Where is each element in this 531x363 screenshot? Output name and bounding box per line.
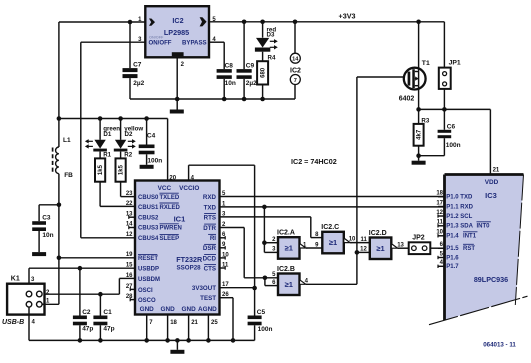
svg-text:IC2.A: IC2.A — [277, 230, 295, 237]
svg-text:GND: GND — [140, 306, 155, 313]
svg-text:GND: GND — [181, 306, 196, 313]
svg-text:CTS: CTS — [204, 265, 216, 272]
svg-text:OSCO: OSCO — [138, 298, 156, 304]
svg-text:FB: FB — [64, 172, 73, 179]
svg-text:47p: 47p — [103, 325, 114, 332]
svg-text:4k7: 4k7 — [417, 129, 423, 140]
svg-text:2µ2: 2µ2 — [133, 80, 144, 87]
svg-text:C3: C3 — [42, 214, 51, 221]
svg-text:D1: D1 — [103, 131, 111, 138]
svg-text:21: 21 — [191, 320, 198, 326]
svg-text:C1: C1 — [103, 309, 112, 316]
svg-text:D2: D2 — [125, 131, 133, 138]
svg-text:SLEEP: SLEEP — [160, 236, 180, 242]
svg-text:14: 14 — [292, 57, 299, 63]
svg-text:C4: C4 — [147, 132, 156, 139]
svg-text:P1.7: P1.7 — [446, 264, 459, 270]
svg-text:INT0: INT0 — [476, 224, 490, 230]
svg-text:21: 21 — [493, 168, 500, 174]
svg-text:OSCI: OSCI — [138, 288, 153, 294]
svg-text:DSR: DSR — [203, 245, 217, 252]
svg-text:3V3OUT: 3V3OUT — [192, 285, 216, 292]
svg-text:10n: 10n — [225, 80, 236, 87]
svg-text:TXLED: TXLED — [160, 195, 180, 201]
svg-text:C2: C2 — [82, 309, 91, 316]
svg-text:P1.1 RXD: P1.1 RXD — [446, 204, 473, 210]
svg-text:2µ2: 2µ2 — [246, 80, 257, 87]
svg-text:RST: RST — [463, 246, 475, 252]
svg-text:89LPC936: 89LPC936 — [474, 275, 508, 284]
svg-text:AGND: AGND — [198, 306, 217, 313]
svg-text:PWREN: PWREN — [160, 226, 182, 232]
svg-text:RESET: RESET — [138, 256, 158, 262]
svg-text:DCD: DCD — [203, 255, 217, 262]
svg-text:10: 10 — [349, 237, 356, 243]
svg-text:CBUS3: CBUS3 — [138, 226, 159, 232]
svg-text:IC2.D: IC2.D — [369, 230, 387, 237]
svg-text:17: 17 — [222, 282, 229, 288]
svg-text:100n: 100n — [258, 326, 273, 333]
svg-text:17: 17 — [436, 200, 443, 206]
svg-text:10n: 10n — [42, 232, 53, 239]
svg-text:BYPASS: BYPASS — [182, 40, 207, 47]
svg-text:IC2.B: IC2.B — [277, 266, 295, 273]
svg-text:IC2: IC2 — [290, 68, 301, 75]
svg-text:RXD: RXD — [203, 194, 217, 201]
svg-text:P1.5: P1.5 — [446, 246, 459, 252]
svg-text:FT232R: FT232R — [176, 255, 203, 264]
svg-text:≥1: ≥1 — [376, 244, 384, 253]
svg-text:IC2: IC2 — [172, 16, 183, 25]
svg-text:C6: C6 — [447, 123, 456, 130]
svg-text:IC1: IC1 — [174, 215, 186, 224]
svg-text:100n: 100n — [446, 142, 461, 149]
svg-text:D3: D3 — [267, 32, 275, 39]
svg-text:LP2985: LP2985 — [164, 28, 189, 37]
svg-text:IC2.C: IC2.C — [321, 224, 339, 231]
svg-text:ON/OFF: ON/OFF — [149, 36, 164, 40]
svg-text:T1: T1 — [422, 60, 430, 67]
svg-text:TXD: TXD — [204, 204, 217, 211]
svg-text:100n: 100n — [147, 157, 162, 164]
svg-text:IC3: IC3 — [485, 191, 497, 200]
svg-text:1k5: 1k5 — [119, 164, 125, 175]
svg-text:CBUS0: CBUS0 — [138, 195, 159, 201]
svg-text:JP2: JP2 — [412, 234, 425, 241]
svg-text:C7: C7 — [133, 61, 142, 68]
svg-text:18: 18 — [170, 320, 177, 326]
svg-text:7: 7 — [294, 78, 297, 84]
svg-text:DTR: DTR — [203, 225, 216, 232]
svg-text:VCCIO: VCCIO — [179, 185, 199, 192]
svg-text:USBDP: USBDP — [138, 267, 159, 273]
svg-text:INT1: INT1 — [463, 234, 477, 240]
svg-text:12: 12 — [360, 246, 367, 252]
svg-text:CBUS4: CBUS4 — [138, 236, 159, 242]
svg-text:C9: C9 — [246, 62, 255, 69]
svg-text:GND: GND — [160, 306, 175, 313]
svg-text:ON/OFF: ON/OFF — [149, 40, 172, 47]
svg-text:≥1: ≥1 — [329, 238, 337, 247]
svg-text:47p: 47p — [82, 325, 93, 332]
svg-text:P1.4: P1.4 — [446, 234, 459, 240]
svg-text:11: 11 — [360, 237, 367, 243]
svg-text:IC2 = 74HC02: IC2 = 74HC02 — [291, 157, 337, 166]
svg-text:USB-B: USB-B — [2, 319, 24, 326]
svg-text:22: 22 — [126, 201, 133, 207]
svg-text:≥1: ≥1 — [285, 280, 293, 289]
svg-text:064013 - 11: 064013 - 11 — [483, 341, 516, 348]
svg-text:CBUS1: CBUS1 — [138, 205, 159, 211]
svg-text:RTS: RTS — [204, 214, 216, 221]
svg-text:P1.6: P1.6 — [446, 255, 459, 261]
svg-text:C5: C5 — [257, 309, 266, 316]
svg-text:≥1: ≥1 — [285, 244, 293, 253]
svg-text:SSOP28: SSOP28 — [177, 265, 202, 272]
svg-text:TEST: TEST — [200, 295, 216, 302]
svg-text:P1.0 TXD: P1.0 TXD — [446, 195, 473, 201]
svg-text:CBUS2: CBUS2 — [138, 216, 159, 222]
svg-text:25: 25 — [211, 320, 218, 326]
svg-text:+3V3: +3V3 — [339, 11, 356, 20]
svg-text:JP1: JP1 — [449, 59, 461, 66]
svg-text:18: 18 — [436, 191, 443, 197]
svg-text:RI: RI — [210, 235, 216, 242]
svg-text:VDD: VDD — [485, 179, 499, 186]
svg-text:14: 14 — [126, 222, 133, 228]
svg-text:C8: C8 — [225, 62, 234, 69]
svg-text:P1.2 SCL: P1.2 SCL — [446, 214, 472, 220]
svg-text:USBDM: USBDM — [138, 277, 160, 283]
svg-text:1k5: 1k5 — [98, 164, 104, 175]
svg-text:L1: L1 — [63, 137, 71, 144]
svg-text:K1: K1 — [11, 275, 20, 282]
svg-text:6402: 6402 — [399, 96, 415, 103]
svg-text:VCC: VCC — [158, 185, 172, 192]
svg-text:20: 20 — [169, 176, 176, 182]
svg-text:23: 23 — [126, 191, 133, 197]
svg-text:P1.3 SDA: P1.3 SDA — [446, 224, 473, 230]
svg-text:RXLED: RXLED — [160, 205, 181, 211]
svg-text:680: 680 — [261, 67, 267, 78]
